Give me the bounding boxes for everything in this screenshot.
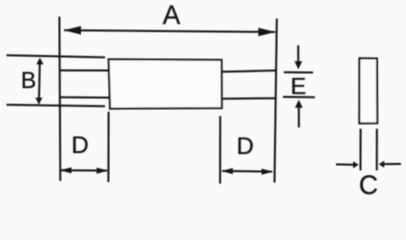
dimension C: left arrowhead (points right) xyxy=(353,161,358,168)
svg-text:C: C xyxy=(359,170,378,200)
wire: right lead bottom edge xyxy=(222,97,277,100)
dimension E: lower arrow line xyxy=(298,107,300,128)
dimension A: left arrowhead xyxy=(64,26,81,35)
svg-text:D: D xyxy=(237,133,254,160)
dimension C: right extension line xyxy=(376,129,378,171)
wire: left lead bottom edge xyxy=(59,96,110,98)
dimension E: bottom tick line xyxy=(283,96,315,98)
dimension D right: dimension line xyxy=(222,170,272,173)
dimension B: bottom extension line xyxy=(7,105,106,107)
dimension D left: dimension line xyxy=(61,169,107,171)
dimension E: lower arrowhead (up) xyxy=(295,100,303,108)
dimension B: bottom arrowhead xyxy=(35,98,42,105)
dimension C: right arrowhead (points left) xyxy=(379,161,384,168)
svg-text:D: D xyxy=(71,132,88,159)
body (front view rectangle) xyxy=(109,59,222,108)
dimension D right: left arrowhead xyxy=(221,168,233,174)
dimension A: right arrowhead xyxy=(258,28,275,37)
wire: right lead top edge xyxy=(222,71,277,72)
dimension D left: right arrowhead xyxy=(97,168,109,174)
dimension C: left extension line xyxy=(360,129,362,171)
dimension A: left extension line xyxy=(58,17,61,181)
dimension E: upper arrow line xyxy=(297,45,299,62)
svg-text:A: A xyxy=(163,0,181,30)
dimension B: top arrowhead xyxy=(36,58,43,65)
dimension B: top extension line xyxy=(7,55,106,57)
wire: left lead top edge xyxy=(59,69,110,71)
dimension E: top tick line xyxy=(284,71,313,73)
dimension A: dimension line xyxy=(64,30,275,32)
dimension A: right extension line xyxy=(275,19,277,183)
dimension C: right arrow line xyxy=(384,163,402,165)
svg-text:E: E xyxy=(291,73,307,99)
dimension D right: left extension line xyxy=(219,116,221,184)
dimension D left: right extension line xyxy=(107,112,109,182)
dimension C: left arrow line xyxy=(336,163,354,165)
dimension D left: left arrowhead xyxy=(60,167,72,173)
dimension B: dimension line xyxy=(39,59,40,103)
svg-text:B: B xyxy=(21,67,36,93)
dimension E: upper arrowhead (down) xyxy=(295,61,303,69)
dimension D right: right arrowhead xyxy=(262,169,274,175)
side view rectangle (C view) xyxy=(359,58,377,123)
